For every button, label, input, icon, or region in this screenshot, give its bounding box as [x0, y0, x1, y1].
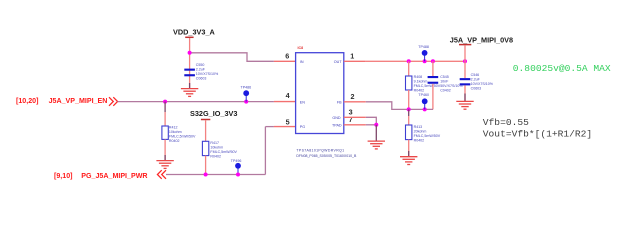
test point TP486 [241, 85, 252, 101]
net label J5A_VP_MIPI_0V8 [450, 35, 513, 44]
capacitor C545 [428, 61, 464, 109]
wire PG net bottom run [166, 174, 265, 176]
wire R417 bottom lead [205, 156, 207, 175]
svg-text:FMLC,5mW/50V: FMLC,5mW/50V [210, 150, 237, 154]
wire PG vertical [264, 127, 266, 175]
ground under GND/TPAD [368, 141, 385, 149]
svg-text:FB: FB [337, 100, 342, 104]
ground under R413 [400, 157, 417, 165]
svg-text:IN: IN [300, 60, 304, 64]
wire GND pin to junction [366, 117, 377, 125]
wire R408 bottom lead [408, 90, 410, 109]
svg-text:C0603: C0603 [471, 87, 482, 91]
resistor R408 [406, 61, 441, 92]
svg-text:EN: EN [300, 100, 305, 104]
wire GND stem [375, 125, 377, 141]
svg-text:VDD_3V3_A: VDD_3V3_A [173, 27, 216, 36]
pin 1 stub OUT [344, 60, 366, 62]
svg-text:J5A_VP_MIPI_0V8: J5A_VP_MIPI_0V8 [450, 35, 513, 44]
net label S32G_IO_3V3 [190, 109, 237, 119]
wire VDD dark segment above ground [189, 83, 191, 88]
pin 3 stub GND [344, 116, 366, 118]
svg-text:0.80025v@0.5A MAX: 0.80025v@0.5A MAX [513, 63, 611, 74]
svg-text:9.1kohm: 9.1kohm [414, 79, 428, 83]
op-amp U1 : regulator IC8 body [296, 46, 344, 134]
svg-text:PG_J5A_MIPI_PWR: PG_J5A_MIPI_PWR [81, 172, 147, 180]
svg-text:C546: C546 [471, 73, 480, 77]
svg-text:10V/X7S/10%: 10V/X7S/10% [471, 82, 494, 86]
node OUT/C546 junction [463, 59, 467, 63]
svg-text:4: 4 [286, 91, 290, 100]
svg-text:DFN08_P065_S05X05_T0160X010_B: DFN08_P065_S05X05_T0160X010_B [296, 154, 357, 158]
node FB/R408-R413 junction [407, 107, 411, 111]
svg-text:C550: C550 [196, 63, 205, 67]
svg-text:6: 6 [285, 51, 289, 60]
svg-text:R413: R413 [414, 125, 423, 129]
pin 4 stub EN [274, 101, 296, 103]
ground under C550 [181, 89, 198, 97]
svg-text:TP486: TP486 [241, 85, 252, 89]
test point TP488 [418, 45, 429, 62]
svg-text:TP488: TP488 [418, 45, 429, 49]
value label part number IC8 [296, 148, 357, 158]
wire R412 top lead [164, 102, 166, 112]
wire PG to pin 5 [265, 126, 274, 128]
svg-text:R0402: R0402 [210, 155, 221, 159]
svg-text:J5A_VP_MIPI_EN: J5A_VP_MIPI_EN [49, 97, 108, 105]
svg-text:TP496: TP496 [231, 159, 242, 163]
svg-text:TPAD: TPAD [332, 123, 342, 127]
off-page connector PG_J5A_MIPI_PWR [54, 172, 148, 180]
svg-text:IC8: IC8 [298, 46, 304, 50]
wire S32G_IO_3V3 to R417 [205, 120, 207, 141]
svg-text:2: 2 [351, 92, 355, 101]
svg-text:10kohm: 10kohm [210, 146, 223, 150]
svg-text:TP460: TP460 [418, 93, 429, 97]
connector chevron << [157, 170, 166, 179]
svg-text:FMLC,5mW/50V: FMLC,5mW/50V [414, 84, 441, 88]
svg-text:10nF: 10nF [440, 79, 449, 83]
pin 7 stub TPAD [344, 124, 366, 126]
wire FB net [366, 102, 433, 110]
svg-text:7: 7 [349, 115, 353, 124]
test point TP460 [418, 93, 429, 109]
node PG/TP496 junction [236, 173, 240, 177]
node EN/TP486 junction [244, 100, 248, 104]
svg-text:FMLC,5mW/50V: FMLC,5mW/50V [414, 134, 441, 138]
svg-text:R408: R408 [414, 75, 423, 79]
resistor R417 [202, 141, 237, 159]
node PG/R417 junction [204, 173, 208, 177]
node OUT/TP488 junction [423, 59, 427, 63]
connector chevron >> [109, 97, 118, 106]
svg-text:C545: C545 [440, 75, 449, 79]
svg-text:[9,10]: [9,10] [54, 172, 73, 180]
wire OUT rail [366, 60, 465, 62]
wire EN net to pin 4 [118, 101, 274, 103]
node OUT/C545 junction [431, 59, 435, 63]
test point TP496 [231, 159, 242, 175]
svg-text:10kohm: 10kohm [169, 130, 182, 134]
off-page connector J5A_VP_MIPI_EN [16, 97, 107, 105]
svg-text:2.2uF: 2.2uF [196, 67, 206, 71]
svg-text:Vfb=0.55: Vfb=0.55 [483, 117, 529, 128]
svg-text:R412: R412 [169, 126, 178, 130]
capacitor C546 [460, 61, 494, 101]
svg-text:C0402: C0402 [440, 88, 451, 92]
pin 5 stub PG [274, 126, 296, 128]
svg-text:R0402: R0402 [169, 139, 180, 143]
svg-text:R0402: R0402 [414, 88, 425, 92]
svg-text:TPS7A8101PQWDRVRQ1: TPS7A8101PQWDRVRQ1 [296, 148, 344, 152]
svg-text:1: 1 [350, 51, 354, 60]
node VDD junction [188, 51, 192, 55]
svg-text:20kohm: 20kohm [414, 129, 427, 133]
wire R412 bottom lead [164, 139, 166, 160]
svg-text:5: 5 [286, 117, 290, 126]
pin 2 stub FB [344, 101, 366, 103]
svg-text:PG: PG [300, 125, 305, 129]
svg-text:Vout=Vfb*[(1+R1/R2]: Vout=Vfb*[(1+R1/R2] [483, 128, 592, 139]
svg-text:R0402: R0402 [414, 138, 425, 142]
wire TPAD pin to junction [366, 124, 377, 126]
node OUT/R408 junction [407, 59, 411, 63]
wire VDD vertical from label through C550 to ground [189, 38, 191, 88]
node EN/R412 junction [163, 100, 167, 104]
ground under R412 [156, 161, 173, 169]
svg-text:2.2uF: 2.2uF [471, 78, 481, 82]
wire label to OUT rail [464, 45, 466, 61]
svg-text:C0603: C0603 [196, 76, 207, 80]
svg-text:S32G_IO_3V3: S32G_IO_3V3 [190, 109, 237, 118]
resistor R412 [162, 126, 196, 144]
svg-text:OUT: OUT [334, 60, 343, 64]
wire R413 bottom lead [408, 140, 410, 157]
pin 6 stub IN [274, 60, 296, 62]
wire VDD_3V3_A to IN pin [190, 53, 274, 62]
net label VDD_3V3_A [173, 27, 216, 37]
resistor R413 [406, 109, 441, 142]
node GND/TPAD junction [374, 123, 378, 127]
svg-text:10V/X7S/10%: 10V/X7S/10% [196, 72, 219, 76]
svg-text:GND: GND [332, 116, 341, 120]
node FB/TP460 junction [423, 107, 427, 111]
svg-text:R417: R417 [210, 141, 219, 145]
svg-text:[10,20]: [10,20] [16, 97, 38, 105]
capacitor C550 [184, 63, 219, 81]
ground under C546 [456, 101, 473, 109]
svg-text:FMLC,5mW/50V: FMLC,5mW/50V [169, 135, 196, 139]
